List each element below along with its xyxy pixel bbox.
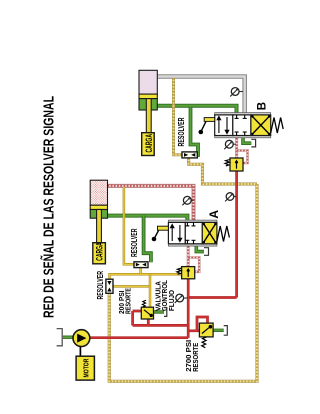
svg-text:RED DE SEÑAL DE LAS RESOLVER S: RED DE SEÑAL DE LAS RESOLVER SIGNAL <box>40 96 58 318</box>
wire red horizontal linking main vertical to pump riser <box>188 296 236 299</box>
gauge G1 <box>230 88 243 97</box>
wire green cylinder C2 cap-side line to valve A top <box>108 216 188 221</box>
valve B crossed solenoid box <box>251 115 271 136</box>
wire red 200psi valve drain line to pump riser <box>133 311 189 325</box>
cylinder C2 <box>90 180 107 243</box>
svg-text:RESORTE: RESORTE <box>191 343 200 372</box>
gauge G3 <box>182 196 194 205</box>
svg-text:CARGA: CARGA <box>144 134 154 153</box>
svg-text:RESORTE: RESORTE <box>124 288 133 314</box>
gauge G4 <box>175 294 188 303</box>
wire pink striped cylinder C2 rod-side line to valve A top <box>108 186 194 221</box>
valve A manual lever <box>152 237 157 242</box>
wire tan striped resolver R3 output stair to signal bus <box>189 158 257 184</box>
pump <box>73 330 90 347</box>
wire tan striped tap from gray line down to resolver R3 left end <box>174 78 183 155</box>
resolver R1 shuttle valve <box>134 262 148 268</box>
wire tan striped signal bus right vertical and bottom and left vertical <box>109 184 257 381</box>
load box CARGA 1 <box>142 133 155 156</box>
pressure reducing valve below valve B <box>225 158 243 171</box>
wire red pump riser from valve-A reducing valve down to pump line <box>187 279 190 338</box>
valve B manual lever <box>199 130 204 135</box>
svg-text:RESOLVER: RESOLVER <box>130 228 139 257</box>
svg-text:CARGA: CARGA <box>95 242 105 261</box>
gauge G2 <box>224 140 236 149</box>
wire yellow tap from pink line down to resolver R1 left end <box>124 187 134 264</box>
wire green valve B tank port to tank <box>243 138 251 143</box>
wire green cylinder C1 cap-side line to valve B top <box>157 106 237 114</box>
valve B flow arrows <box>217 115 247 136</box>
relief valve 2700 psi <box>199 323 213 348</box>
resolver R3 shuttle valve <box>182 152 197 158</box>
wire red pump discharge line <box>90 336 189 339</box>
svg-text:FLUJO: FLUJO <box>167 290 176 311</box>
tank symbol at valve B <box>251 139 255 147</box>
200 psi spring-set valve <box>141 300 153 319</box>
wire green valve A tank port to tank <box>196 246 204 252</box>
motor shaft <box>79 347 81 357</box>
svg-text:A: A <box>207 210 221 219</box>
wire red relief valve feed with pilot loop <box>188 317 207 331</box>
wire red main pressure from valve-B reducing valve down right side <box>235 171 238 298</box>
valve A crossed solenoid box <box>202 222 217 243</box>
wire green branch to resolver R1 right end <box>144 216 151 263</box>
valve B 4/3 directional control valve <box>199 113 284 138</box>
wire pink striped pilot valve B bottom to reducing valve with sensing loop <box>237 138 248 163</box>
motor M1 <box>76 356 94 380</box>
wire green 200psi valve tank stub <box>154 310 165 313</box>
valve A 4/3 directional control valve <box>152 220 230 246</box>
wire green relief valve tank stub <box>213 329 224 332</box>
valve B return spring <box>271 118 284 134</box>
pressure reducing valve below valve A <box>177 267 195 279</box>
tank symbol at valve A <box>204 248 209 256</box>
tank symbol at pump suction <box>57 329 63 346</box>
svg-text:MOTOR: MOTOR <box>81 358 90 377</box>
tank symbol at relief valve <box>224 326 228 336</box>
wire green branch to resolver R3 right end <box>191 107 199 155</box>
svg-text:RESOLVER: RESOLVER <box>177 117 186 146</box>
wire yellow control-fluid header H1 resolver R2 top to valve block A left port <box>110 274 182 279</box>
gauge G5 <box>225 193 236 202</box>
wire pink striped pilot valve A bottom to reducing valve with sensing loop <box>188 246 199 272</box>
wire yellow resolver R2 output to 200psi valve top <box>113 274 150 307</box>
cylinder C1 <box>139 70 157 133</box>
wire green suction tank to pump <box>63 336 73 339</box>
wire gray cylinder C1 rod-side line to valve B top <box>157 77 245 114</box>
resolver R2 shuttle valve vertical <box>106 279 113 293</box>
wire yellow resolver R1 output stub down to header H1 <box>139 268 142 275</box>
valve A return spring <box>217 226 230 242</box>
load box CARGA 2 <box>93 243 106 264</box>
valve A flow arrows <box>171 222 196 243</box>
tank symbol at 200psi valve <box>164 308 167 317</box>
svg-text:B: B <box>256 102 268 110</box>
svg-text:RESOLVER: RESOLVER <box>96 271 105 300</box>
